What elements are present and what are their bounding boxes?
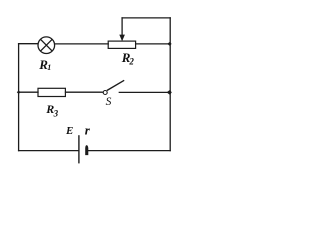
svg-text:1: 1 bbox=[47, 63, 51, 72]
svg-text:3: 3 bbox=[53, 108, 59, 118]
resistor R3 bbox=[38, 88, 65, 96]
wire right vertical bbox=[169, 18, 171, 151]
wire bottom row left segment bbox=[19, 150, 79, 152]
junction right middle bbox=[167, 90, 172, 95]
svg-text:2: 2 bbox=[128, 56, 134, 66]
wire top row right segment bbox=[136, 43, 171, 45]
svg-text:E: E bbox=[65, 125, 73, 137]
wire middle row right segment bbox=[119, 91, 170, 93]
wire left vertical bbox=[18, 44, 20, 151]
wire rheostat wiper vertical bbox=[121, 18, 123, 35]
svg-text:S: S bbox=[106, 96, 112, 108]
label R2 bbox=[121, 50, 135, 67]
lamp R1 bbox=[38, 37, 55, 54]
wire top row middle segment bbox=[55, 43, 108, 45]
battery E r bbox=[79, 135, 88, 163]
rheostat R2 bbox=[108, 35, 135, 49]
label R3 bbox=[45, 102, 58, 118]
junction right top bbox=[167, 42, 171, 46]
wire middle row left segment bbox=[19, 91, 38, 93]
label R1 bbox=[38, 57, 51, 72]
svg-text:r: r bbox=[85, 123, 91, 138]
switch S bbox=[103, 80, 124, 94]
wire rheostat wiper top horizontal bbox=[122, 17, 170, 19]
junction left middle bbox=[17, 90, 21, 94]
wire middle row center segment bbox=[66, 91, 103, 93]
wire top row left segment bbox=[19, 43, 38, 45]
wire bottom row right segment bbox=[89, 150, 171, 152]
